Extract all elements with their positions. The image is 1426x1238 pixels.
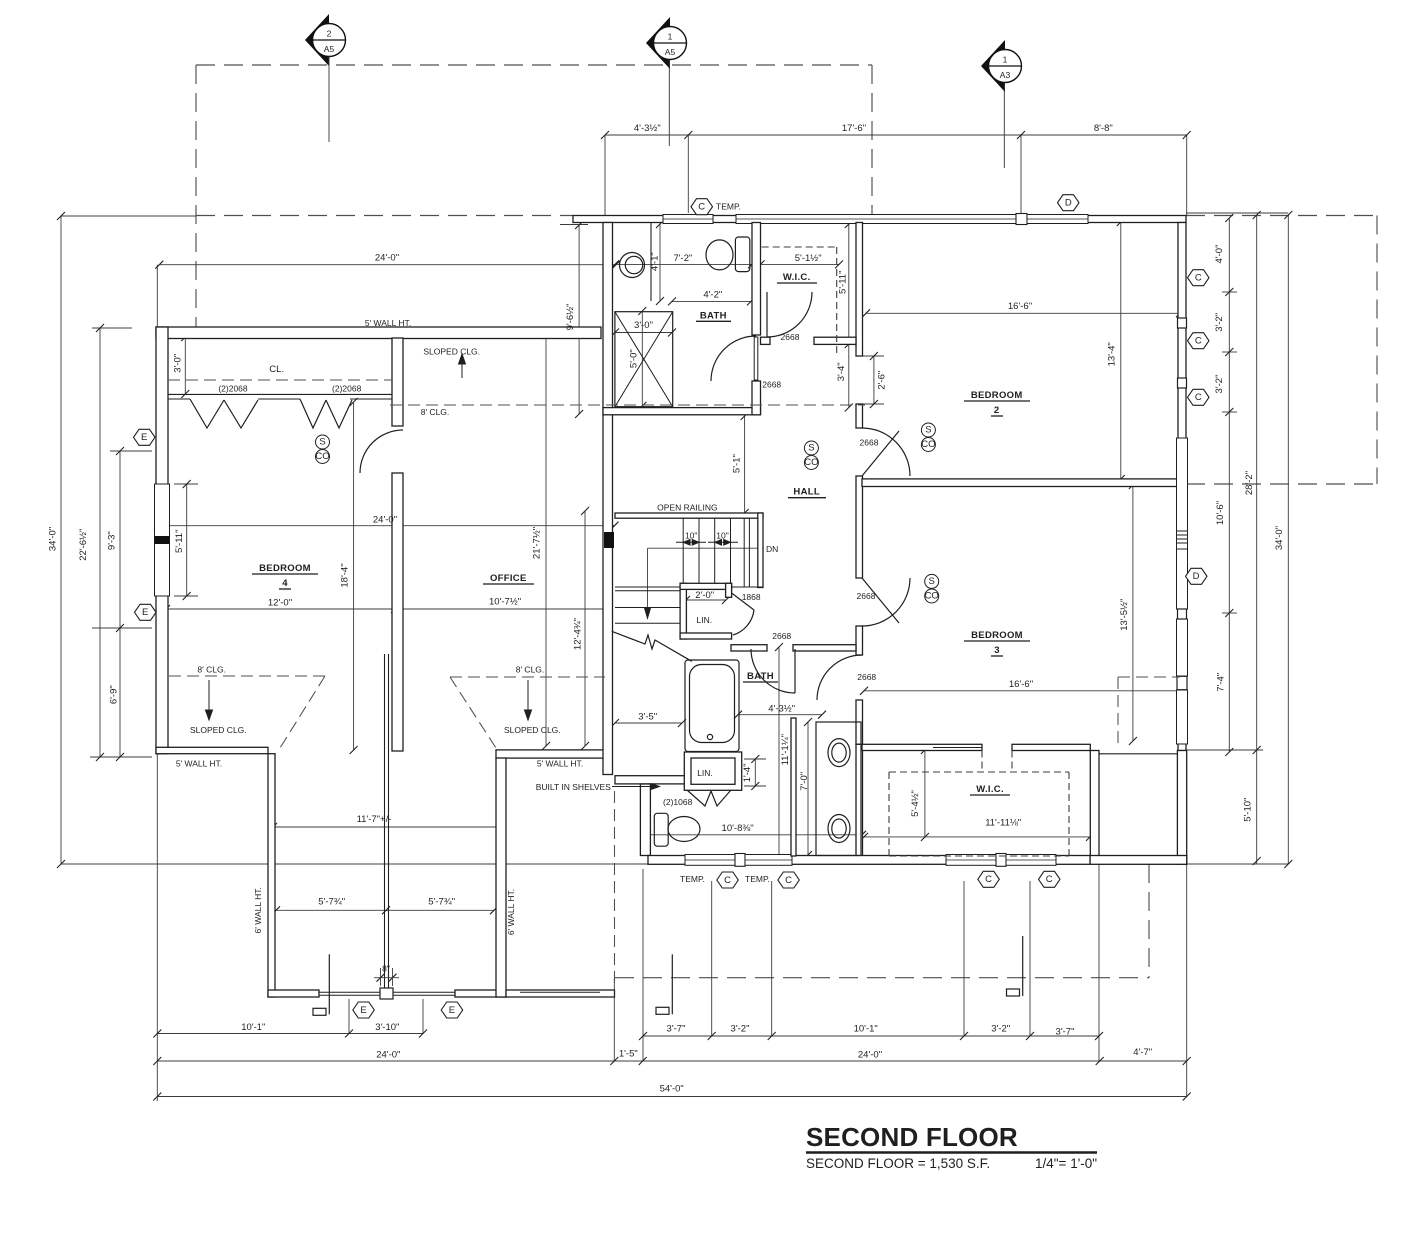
svg-text:1868: 1868 [742, 592, 761, 602]
svg-text:13'-5½": 13'-5½" [1119, 599, 1130, 631]
svg-text:6' WALL HT.: 6' WALL HT. [253, 887, 263, 933]
svg-text:10'-7½": 10'-7½" [489, 597, 521, 608]
svg-text:W.I.C.: W.I.C. [783, 272, 811, 283]
svg-text:D: D [1065, 198, 1072, 209]
svg-text:BEDROOM: BEDROOM [971, 390, 1023, 401]
svg-text:12'-0": 12'-0" [268, 597, 292, 608]
svg-text:5'-1½": 5'-1½" [795, 253, 822, 264]
svg-text:16'-6": 16'-6" [1008, 301, 1032, 312]
svg-text:5'-1": 5'-1" [732, 454, 743, 473]
svg-text:4'-7": 4'-7" [1133, 1047, 1152, 1058]
svg-text:S: S [925, 425, 931, 436]
svg-text:16'-6": 16'-6" [1009, 679, 1033, 690]
svg-text:54'-0": 54'-0" [660, 1084, 684, 1095]
svg-text:2668: 2668 [860, 437, 879, 447]
svg-text:2668: 2668 [857, 591, 876, 601]
svg-text:24'-0": 24'-0" [373, 515, 397, 526]
svg-text:7'-4": 7'-4" [1216, 673, 1227, 692]
svg-text:2: 2 [994, 405, 1000, 416]
svg-text:3: 3 [994, 645, 1000, 656]
svg-text:OFFICE: OFFICE [490, 573, 527, 584]
svg-text:C: C [1195, 273, 1202, 284]
svg-text:5' WALL HT.: 5' WALL HT. [537, 759, 583, 769]
svg-text:2668: 2668 [857, 672, 876, 682]
svg-text:12'-4¾": 12'-4¾" [572, 618, 583, 650]
svg-text:E: E [360, 1005, 366, 1016]
svg-text:C: C [1195, 392, 1202, 403]
svg-text:C: C [698, 202, 705, 213]
svg-text:8": 8" [382, 964, 390, 974]
svg-text:C: C [1195, 336, 1202, 347]
svg-text:DN: DN [766, 544, 778, 554]
svg-text:8' CLG.: 8' CLG. [421, 407, 450, 417]
svg-text:C: C [785, 875, 792, 886]
svg-text:BATH: BATH [700, 310, 727, 321]
svg-text:S: S [929, 576, 935, 587]
svg-text:3'-0": 3'-0" [172, 354, 183, 373]
svg-text:3'-2": 3'-2" [991, 1024, 1010, 1035]
svg-text:4: 4 [282, 578, 288, 589]
svg-text:5'-10": 5'-10" [1242, 798, 1253, 822]
svg-text:CO: CO [315, 451, 329, 462]
svg-text:S: S [319, 437, 325, 448]
svg-text:1'-4": 1'-4" [742, 763, 753, 782]
svg-text:3'-5": 3'-5" [638, 712, 657, 723]
svg-text:3'-7": 3'-7" [667, 1024, 686, 1035]
svg-text:S: S [808, 443, 814, 454]
svg-text:C: C [1046, 874, 1053, 885]
svg-text:LIN.: LIN. [697, 768, 713, 778]
svg-text:TEMP.: TEMP. [745, 874, 770, 884]
svg-text:CO: CO [925, 591, 939, 602]
svg-text:4'-2": 4'-2" [703, 290, 722, 301]
svg-text:11'-1¼": 11'-1¼" [780, 734, 791, 765]
svg-text:1/4"= 1'-0": 1/4"= 1'-0" [1035, 1156, 1097, 1171]
svg-text:5'-11": 5'-11" [174, 530, 185, 554]
svg-text:1: 1 [668, 32, 673, 42]
svg-text:4'-3½": 4'-3½" [634, 123, 661, 134]
svg-text:6' WALL HT.: 6' WALL HT. [506, 889, 516, 935]
svg-text:11'-7"+/-: 11'-7"+/- [357, 814, 392, 825]
svg-text:CO: CO [921, 439, 935, 450]
svg-text:A5: A5 [665, 47, 676, 57]
svg-text:7'-0": 7'-0" [799, 772, 810, 791]
svg-text:(2)1068: (2)1068 [663, 797, 693, 807]
svg-text:SECOND FLOOR = 1,530 S.F.: SECOND FLOOR = 1,530 S.F. [806, 1156, 990, 1171]
svg-text:LIN.: LIN. [697, 615, 713, 625]
svg-text:C: C [724, 875, 731, 886]
svg-text:5'-4½": 5'-4½" [910, 790, 921, 817]
svg-text:34'-0": 34'-0" [47, 527, 58, 551]
svg-text:3'-4": 3'-4" [836, 362, 847, 381]
svg-text:18'-4": 18'-4" [340, 563, 351, 587]
svg-text:5' WALL HT.: 5' WALL HT. [365, 318, 411, 328]
svg-text:24'-0": 24'-0" [858, 1049, 882, 1060]
svg-text:BATH: BATH [747, 671, 774, 682]
svg-text:5'-7¾": 5'-7¾" [428, 897, 455, 908]
svg-text:2668: 2668 [762, 379, 781, 389]
svg-text:4'-0": 4'-0" [1214, 245, 1225, 264]
svg-text:2668: 2668 [772, 631, 791, 641]
svg-text:21'-7½": 21'-7½" [532, 527, 543, 559]
svg-text:28'-2": 28'-2" [1244, 471, 1255, 495]
svg-text:9'-3": 9'-3" [107, 531, 118, 550]
svg-text:A3: A3 [1000, 70, 1011, 80]
svg-text:3'-2": 3'-2" [731, 1024, 750, 1035]
svg-text:BEDROOM: BEDROOM [259, 563, 311, 574]
svg-text:A5: A5 [324, 44, 335, 54]
svg-text:22'-6½": 22'-6½" [78, 529, 89, 561]
svg-text:10'-1": 10'-1" [241, 1022, 265, 1033]
svg-text:2: 2 [327, 29, 332, 39]
svg-text:3'-2": 3'-2" [1214, 375, 1225, 394]
svg-text:SLOPED CLG.: SLOPED CLG. [190, 725, 247, 735]
svg-text:BEDROOM: BEDROOM [971, 630, 1023, 641]
svg-text:4'-1": 4'-1" [650, 252, 661, 271]
svg-text:E: E [142, 607, 148, 618]
svg-text:2668: 2668 [781, 332, 800, 342]
svg-text:10'-6": 10'-6" [1215, 501, 1226, 525]
svg-text:9'-6½": 9'-6½" [565, 304, 576, 331]
svg-text:10": 10" [716, 530, 728, 540]
svg-text:BUILT IN SHELVES: BUILT IN SHELVES [536, 782, 611, 792]
svg-text:5' WALL HT.: 5' WALL HT. [176, 759, 222, 769]
svg-text:4'-3½": 4'-3½" [768, 703, 795, 714]
svg-text:D: D [1193, 571, 1200, 582]
svg-text:TEMP.: TEMP. [716, 202, 741, 212]
svg-text:3'-0": 3'-0" [634, 320, 653, 331]
svg-text:1'-5": 1'-5" [619, 1049, 638, 1060]
svg-text:E: E [449, 1005, 455, 1016]
svg-text:CO: CO [804, 457, 818, 468]
svg-text:SLOPED CLG.: SLOPED CLG. [504, 725, 561, 735]
svg-text:5'-11": 5'-11" [837, 271, 848, 295]
svg-text:3'-10": 3'-10" [375, 1022, 399, 1033]
svg-text:3'-2": 3'-2" [1214, 313, 1225, 332]
svg-text:13'-4": 13'-4" [1107, 342, 1118, 366]
svg-text:CL.: CL. [269, 364, 284, 375]
svg-text:5'-7¾": 5'-7¾" [318, 897, 345, 908]
svg-text:10'-1": 10'-1" [854, 1024, 878, 1035]
svg-text:TEMP.: TEMP. [680, 874, 705, 884]
svg-text:2'-6": 2'-6" [877, 371, 888, 390]
svg-text:7'-2": 7'-2" [673, 253, 692, 264]
svg-text:SLOPED CLG.: SLOPED CLG. [423, 347, 480, 357]
svg-text:E: E [141, 432, 147, 443]
svg-text:3'-7": 3'-7" [1056, 1026, 1075, 1037]
svg-text:(2)2068: (2)2068 [218, 384, 248, 394]
svg-text:8' CLG.: 8' CLG. [516, 665, 545, 675]
svg-text:1: 1 [1003, 55, 1008, 65]
svg-text:6'-9": 6'-9" [108, 685, 119, 704]
svg-text:HALL: HALL [793, 487, 820, 498]
svg-text:8' CLG.: 8' CLG. [197, 665, 226, 675]
svg-text:5'-0": 5'-0" [629, 349, 640, 368]
svg-text:34'-0": 34'-0" [1274, 526, 1285, 550]
svg-text:8'-8": 8'-8" [1094, 123, 1113, 134]
svg-text:C: C [985, 874, 992, 885]
svg-text:24'-0": 24'-0" [375, 252, 399, 263]
svg-text:W.I.C.: W.I.C. [976, 784, 1004, 795]
svg-text:10'-8⅜": 10'-8⅜" [722, 823, 754, 834]
svg-text:(2)2068: (2)2068 [332, 384, 362, 394]
svg-text:SECOND FLOOR: SECOND FLOOR [806, 1122, 1018, 1152]
svg-text:2'-0": 2'-0" [695, 590, 714, 601]
svg-text:17'-6": 17'-6" [842, 123, 866, 134]
svg-text:24'-0": 24'-0" [376, 1049, 400, 1060]
svg-text:10": 10" [685, 530, 697, 540]
svg-text:11'-11⅛": 11'-11⅛" [985, 817, 1021, 828]
svg-text:OPEN RAILING: OPEN RAILING [657, 503, 717, 513]
